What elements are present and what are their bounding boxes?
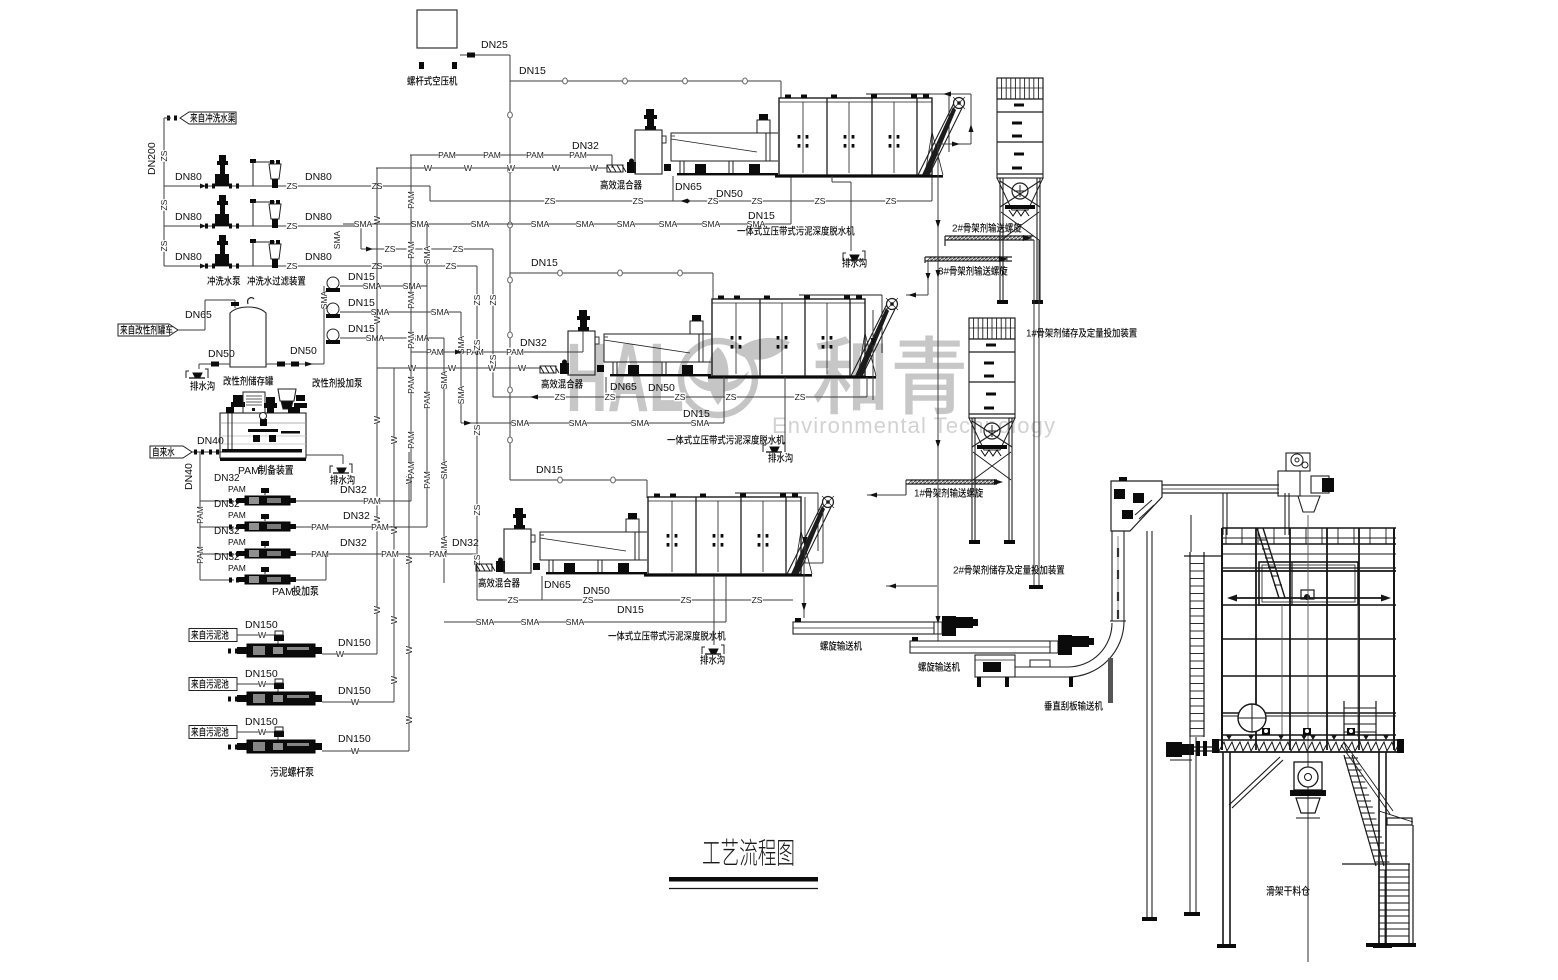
air compressor 螺杆式空压机	[417, 10, 457, 48]
manhole circle	[1238, 704, 1266, 732]
modifier storage tank 改性剂储存罐	[230, 307, 266, 367]
right staircase upper flight	[1344, 755, 1384, 866]
svg-text:ZS: ZS	[555, 392, 566, 402]
svg-text:DN25: DN25	[481, 39, 508, 51]
flush water pump rows DN80	[164, 185, 430, 187]
svg-text:ZS: ZS	[472, 504, 482, 515]
svg-text:ZS: ZS	[446, 261, 457, 271]
svg-text:DN50: DN50	[648, 382, 675, 394]
svg-text:PAM: PAM	[406, 431, 416, 449]
conveyor drive motor left	[1166, 742, 1182, 757]
svg-text:ZS: ZS	[752, 595, 763, 605]
svg-text:ZS: ZS	[472, 339, 482, 350]
svg-text:DN32: DN32	[340, 484, 367, 496]
svg-text:DN50: DN50	[716, 188, 743, 200]
press3 mixer outlet DN65	[541, 576, 543, 600]
PAM vertical from pump1	[410, 155, 412, 501]
svg-text:ZS: ZS	[508, 595, 519, 605]
svg-text:SMA: SMA	[659, 219, 678, 229]
svg-text:W: W	[389, 676, 399, 684]
svg-text:DN15: DN15	[748, 210, 775, 222]
svg-text:ZS: ZS	[287, 221, 298, 231]
svg-text:W: W	[258, 679, 266, 689]
press unit 3	[476, 493, 834, 577]
svg-text:ZS: ZS	[472, 294, 482, 305]
svg-text:DN80: DN80	[305, 211, 332, 223]
svg-text:DN80: DN80	[305, 251, 332, 263]
svg-text:DN15: DN15	[531, 257, 558, 269]
row3 extension	[468, 265, 477, 267]
svg-text:SMA: SMA	[332, 230, 342, 249]
air main vertical	[509, 55, 511, 480]
press3 ZS line	[477, 599, 793, 601]
svg-text:DN65: DN65	[544, 579, 571, 591]
SMA line press1	[343, 223, 791, 225]
pipe DN15 air to press3	[510, 479, 647, 481]
svg-text:PAM: PAM	[272, 587, 294, 598]
scraper conveyor riser	[1111, 531, 1113, 621]
svg-text:ZS: ZS	[886, 196, 897, 206]
svg-text:ZS: ZS	[795, 392, 806, 402]
svg-text:DN65: DN65	[185, 309, 212, 321]
screw conveyor 1 螺旋输送机	[793, 622, 934, 634]
svg-text:SMA: SMA	[471, 219, 490, 229]
mid grid	[1222, 638, 1396, 640]
svg-text:1#: 1#	[1026, 329, 1038, 340]
PAM preparation skid PAM制备装置	[220, 413, 306, 458]
svg-text:W: W	[590, 163, 598, 173]
svg-text:SMA: SMA	[403, 281, 422, 291]
stair landing	[1387, 818, 1412, 825]
ZS filtrate main under press1	[430, 200, 932, 202]
svg-text:PAM: PAM	[238, 466, 260, 477]
inner posts right	[1343, 701, 1345, 740]
svg-text:PAM: PAM	[406, 461, 416, 479]
press2 discharge drop	[872, 310, 874, 400]
W vertical 2	[377, 367, 540, 369]
svg-text:PAM: PAM	[426, 347, 444, 357]
svg-text:W: W	[404, 716, 414, 724]
svg-text:ZS: ZS	[726, 392, 737, 402]
svg-text:PAM: PAM	[438, 150, 456, 160]
W vertical 3	[408, 452, 410, 751]
PAM pump4 discharge	[296, 579, 326, 581]
svg-text:PAM: PAM	[195, 546, 205, 564]
row1 down to filtrate main	[429, 186, 431, 201]
svg-text:SMA: SMA	[422, 245, 432, 264]
svg-text:ZS: ZS	[287, 181, 298, 191]
svg-text:ZS: ZS	[488, 294, 498, 305]
svg-text:DN80: DN80	[175, 251, 202, 263]
flag 来自冲洗水渠	[180, 112, 236, 124]
svg-text:SMA: SMA	[363, 281, 382, 291]
svg-text:Environmental Technology: Environmental Technology	[772, 413, 1056, 438]
svg-text:DN32: DN32	[520, 337, 547, 349]
svg-text:PAM: PAM	[406, 191, 416, 209]
svg-text:W: W	[389, 436, 399, 444]
PAM pump1 discharge DN32	[296, 500, 411, 502]
screw conveyor 2 螺旋输送机	[910, 641, 1050, 653]
press3 discharge drop	[804, 497, 806, 563]
left cage ladder	[1189, 552, 1191, 737]
svg-text:PAM: PAM	[311, 522, 329, 532]
svg-text:PAM: PAM	[371, 522, 389, 532]
svg-text:DN32: DN32	[214, 499, 240, 510]
svg-text:PAM: PAM	[422, 471, 432, 489]
pipe DN15 air to press2	[510, 272, 713, 274]
svg-text:DN32: DN32	[214, 526, 240, 537]
rotary feeder at silo top	[1278, 471, 1300, 496]
svg-text:SMA: SMA	[431, 307, 450, 317]
2# conveyor 骨架剂输送螺旋	[945, 235, 1034, 237]
svg-text:DN32: DN32	[452, 537, 479, 549]
inner bin box	[1259, 562, 1358, 605]
press1 drain	[831, 176, 833, 182]
svg-text:SMA: SMA	[476, 617, 495, 627]
svg-text:PAM: PAM	[195, 506, 205, 524]
3# conveyor feed to press2	[927, 261, 929, 295]
svg-text:DN15: DN15	[617, 604, 644, 616]
svg-text:SMA: SMA	[366, 333, 385, 343]
top railing	[1222, 527, 1396, 529]
svg-text:PAM: PAM	[406, 241, 416, 259]
svg-text:DN80: DN80	[175, 171, 202, 183]
skeleton agent silo A top	[997, 78, 1043, 304]
svg-text:PAM: PAM	[406, 376, 416, 394]
ZS vertical to press3	[476, 266, 478, 600]
svg-text:SMA: SMA	[521, 617, 540, 627]
svg-text:HAL: HAL	[566, 323, 684, 432]
svg-text:W: W	[424, 163, 432, 173]
svg-text:W: W	[408, 363, 416, 373]
press2 mixer outlet DN65	[605, 377, 607, 397]
press2 SMA line	[461, 422, 724, 424]
svg-text:W: W	[372, 606, 382, 614]
svg-text:W: W	[518, 363, 526, 373]
center discharge feeder	[1307, 752, 1309, 962]
cake transfer vertical	[937, 144, 939, 641]
svg-text:DN40: DN40	[183, 463, 195, 490]
svg-text:W: W	[372, 216, 382, 224]
PAM manifold down	[199, 452, 201, 580]
svg-text:SMA: SMA	[371, 307, 390, 317]
structure legs	[1222, 752, 1224, 944]
svg-text:SMA: SMA	[691, 418, 710, 428]
svg-text:ZS: ZS	[675, 392, 686, 402]
PAM header to mixer1	[410, 154, 612, 156]
svg-text:DN50: DN50	[208, 348, 235, 360]
press unit 2	[540, 295, 898, 379]
svg-text:PAM: PAM	[406, 291, 416, 309]
press2 drain	[784, 377, 786, 443]
modifier dosing pumps 改性剂投加泵	[323, 286, 325, 364]
svg-text:W: W	[507, 163, 515, 173]
svg-text:PAM: PAM	[526, 150, 544, 160]
svg-text:2#: 2#	[952, 224, 964, 235]
scraper horizontal duct	[1015, 666, 1068, 668]
svg-text:PAM: PAM	[228, 563, 246, 573]
svg-text:PAM: PAM	[228, 537, 246, 547]
svg-text:DN200: DN200	[146, 142, 158, 175]
right lower flight	[1379, 864, 1409, 943]
svg-text:ZS: ZS	[545, 196, 556, 206]
svg-text:ZS: ZS	[159, 199, 169, 210]
tank outlet DN50 to dosing pumps	[266, 363, 324, 365]
svg-text:SMA: SMA	[439, 460, 449, 479]
title 工艺流程图	[703, 842, 720, 863]
label 滑架干料仓	[1266, 886, 1274, 896]
svg-text:W: W	[336, 649, 344, 659]
svg-text:SMA: SMA	[631, 418, 650, 428]
svg-text:DN80: DN80	[305, 171, 332, 183]
row2 jog	[360, 226, 362, 249]
press3 SMA line	[444, 621, 726, 623]
svg-text:SMA: SMA	[702, 219, 721, 229]
PAM header to mixer2	[411, 351, 583, 353]
svg-text:DN32: DN32	[214, 552, 240, 563]
silo A lower support columns	[1033, 240, 1035, 585]
svg-text:W: W	[372, 316, 382, 324]
vertical scraper conveyor feed box	[975, 655, 1015, 677]
pipe DN65 to tank	[178, 329, 205, 331]
access stair	[1257, 528, 1285, 598]
scraper elbow	[1068, 623, 1112, 667]
dosing lines DN15 SMA rows	[340, 285, 427, 287]
svg-text:W: W	[351, 697, 359, 707]
press unit 1 一体式立压带式污泥深度脱水机	[607, 94, 965, 178]
tap water flag 自来水	[150, 446, 192, 458]
svg-text:SMA: SMA	[617, 219, 636, 229]
svg-text:DN15: DN15	[519, 65, 546, 77]
svg-text:2#: 2#	[953, 566, 965, 577]
svg-text:PAM: PAM	[228, 484, 246, 494]
svg-text:DN32: DN32	[343, 510, 370, 522]
svg-text:PAM: PAM	[381, 549, 399, 559]
modifier flag 来自改性剂罐车	[118, 324, 178, 336]
svg-text:ZS: ZS	[633, 196, 644, 206]
svg-text:PAM: PAM	[406, 331, 416, 349]
W vertical 1	[376, 168, 378, 654]
svg-text:SMA: SMA	[439, 370, 449, 389]
svg-text:SMA: SMA	[576, 219, 595, 229]
svg-text:ZS: ZS	[472, 424, 482, 435]
svg-text:W: W	[258, 630, 266, 640]
svg-text:SMA: SMA	[566, 617, 585, 627]
svg-text:ZS: ZS	[159, 150, 169, 161]
svg-text:DN32: DN32	[572, 140, 599, 152]
svg-text:DN32: DN32	[214, 473, 240, 484]
PAM pump2 discharge DN32	[296, 526, 427, 528]
sliding frame beam	[1232, 597, 1388, 599]
svg-text:PAM: PAM	[429, 549, 447, 559]
svg-text:DN150: DN150	[338, 733, 371, 745]
svg-text:W: W	[258, 727, 266, 737]
svg-text:W: W	[488, 363, 496, 373]
pipe DN15 air to press1	[510, 80, 781, 82]
svg-text:ZS: ZS	[681, 595, 692, 605]
head box support legs	[1146, 531, 1148, 917]
frame verticals	[1221, 528, 1223, 750]
svg-text:ZS: ZS	[385, 244, 396, 254]
svg-text:W: W	[464, 163, 472, 173]
silo B middle	[969, 318, 1015, 544]
press1 mixer outlet DN65	[672, 176, 674, 201]
lower band with feet	[1222, 734, 1396, 736]
svg-text:DN150: DN150	[338, 685, 371, 697]
svg-text:PAM: PAM	[363, 496, 381, 506]
svg-text:W: W	[389, 616, 399, 624]
svg-text:ZS: ZS	[159, 240, 169, 251]
pipe DN25 from compressor	[460, 54, 510, 56]
svg-text:DN32: DN32	[340, 537, 367, 549]
svg-text:SMA: SMA	[354, 219, 373, 229]
press1 top feed wire	[930, 93, 971, 95]
platform bands	[1222, 553, 1396, 555]
1# conveyor 骨架剂输送螺旋	[906, 479, 997, 481]
svg-text:W: W	[404, 556, 414, 564]
pipe DN200 flush water main	[164, 117, 171, 119]
svg-text:ZS: ZS	[605, 392, 616, 402]
tank drain DN50	[199, 363, 230, 365]
svg-text:DN50: DN50	[583, 585, 610, 597]
top distribution conveyor	[1162, 484, 1279, 486]
PAM dosing pumps x4	[200, 500, 234, 502]
svg-text:DN150: DN150	[338, 637, 371, 649]
scraper head box	[1111, 481, 1162, 531]
svg-text:DN50: DN50	[290, 345, 317, 357]
sludge feed pumps 污泥螺杆泵	[189, 629, 237, 642]
svg-text:ZS: ZS	[453, 244, 464, 254]
bottom screw conveyor	[1214, 739, 1402, 741]
W header to mixer1	[376, 167, 607, 169]
svg-text:SMA: SMA	[569, 418, 588, 428]
svg-text:DN65: DN65	[675, 181, 702, 193]
svg-text:ZS: ZS	[287, 261, 298, 271]
svg-text:ZS: ZS	[815, 196, 826, 206]
svg-text:DN80: DN80	[175, 211, 202, 223]
svg-text:PAM: PAM	[228, 510, 246, 520]
3# conveyor 骨架剂输送螺旋	[925, 256, 1012, 258]
svg-text:PAM: PAM	[422, 391, 432, 409]
svg-text:ZS: ZS	[752, 196, 763, 206]
flush pump labels	[207, 276, 215, 286]
svg-text:PAM: PAM	[483, 150, 501, 160]
svg-text:SMA: SMA	[456, 385, 466, 404]
skid outfall to drain	[306, 454, 343, 456]
svg-text:W: W	[448, 363, 456, 373]
svg-text:W: W	[351, 746, 359, 756]
svg-text:SMA: SMA	[511, 418, 530, 428]
svg-text:1#: 1#	[914, 489, 926, 500]
PAM pump3 discharge DN32 to mixer3	[296, 553, 476, 555]
press3 drain	[713, 576, 715, 645]
svg-text:DN15: DN15	[536, 464, 563, 476]
svg-text:W: W	[552, 163, 560, 173]
press2 ZS line	[493, 396, 867, 398]
svg-text:W: W	[372, 416, 382, 424]
svg-text:SMA: SMA	[531, 219, 550, 229]
svg-text:W: W	[404, 646, 414, 654]
